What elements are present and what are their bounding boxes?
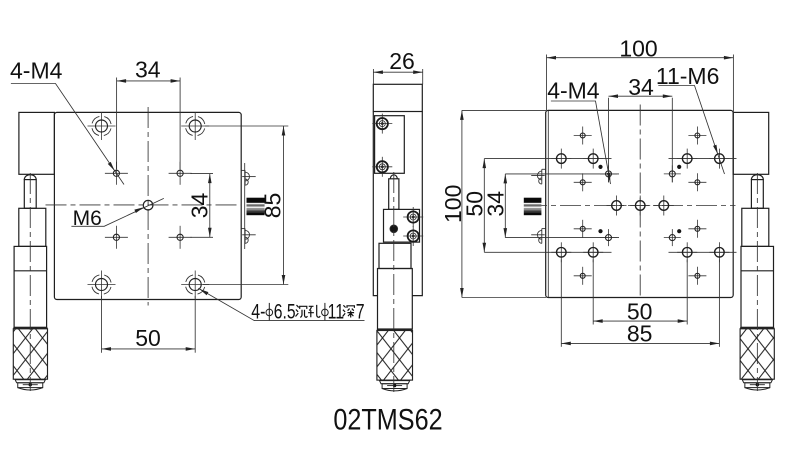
svg-text:34: 34 — [135, 57, 161, 83]
right plate horizontal centerline — [526, 205, 736, 207]
svg-text:34: 34 — [628, 74, 654, 100]
M4 hole top-left — [105, 162, 128, 185]
M6 holes upper row — [551, 149, 571, 169]
svg-text:M6: M6 — [73, 207, 102, 230]
side micrometer cap — [380, 381, 410, 391]
block center pin — [390, 225, 398, 233]
svg-text:4-M4: 4-M4 — [547, 78, 600, 104]
side micrometer centerline — [393, 172, 395, 392]
dimension 34 inner: extension lines — [191, 173, 214, 175]
bottom dim column extension lines — [560, 260, 562, 347]
side view top plate — [373, 84, 422, 111]
dimension 34 top: dim line — [117, 80, 181, 82]
dimension 100 top: dim line — [547, 57, 734, 59]
svg-text:34: 34 — [482, 191, 508, 217]
counterbore hole top-left — [88, 112, 116, 140]
right plate vertical centerline — [639, 105, 641, 299]
micrometer sleeve — [19, 208, 46, 246]
M6 holes center row — [607, 196, 627, 216]
counterbore hole top-right — [181, 112, 209, 140]
right clamp block — [733, 112, 769, 174]
micrometer cap — [15, 380, 45, 390]
right view stage plate — [546, 110, 734, 297]
right micrometer knurled thimble — [740, 328, 774, 379]
dimension 34 top right: dim line — [609, 95, 673, 97]
block screw upper — [403, 207, 423, 227]
barrel divider line — [14, 270, 47, 272]
M4 hole bottom-left — [105, 226, 128, 249]
clamp screw lower — [372, 157, 392, 177]
svg-text:4-M4: 4-M4 — [10, 57, 63, 83]
dimension 34 top: extension lines — [116, 78, 118, 170]
svg-text:34: 34 — [186, 193, 212, 219]
dimension 26: dim line — [373, 71, 422, 73]
small M4 holes left column — [574, 127, 592, 145]
side tab screw upper — [241, 170, 255, 185]
dimension 85 bottom right: dim line — [561, 342, 719, 344]
micrometer barrel — [14, 246, 47, 327]
top 34 column extension lines — [608, 98, 610, 183]
dimension 85 right: dim line — [283, 126, 285, 285]
svg-text:11: 11 — [328, 300, 345, 324]
dimension 34 left: dim line — [504, 174, 506, 238]
small M4 holes right column — [688, 127, 706, 145]
100 left extension lines — [462, 109, 546, 111]
dimension 26: extension lines — [372, 69, 374, 84]
side micrometer block — [384, 209, 420, 242]
dimension 50 left: dim line — [483, 159, 485, 253]
micrometer ball and spindle — [24, 175, 36, 209]
micrometer clamp block — [19, 112, 55, 174]
label 4-M4 right leader — [551, 101, 611, 184]
M4 hole top-right — [169, 162, 192, 185]
dimension 50 bottom: dim line — [102, 348, 196, 350]
left view stage plate — [54, 112, 241, 299]
dimension 50 bottom: extension lines — [101, 296, 103, 353]
dimension 50 bottom right: dim line — [593, 320, 687, 322]
M4 hole bottom-right — [169, 226, 192, 249]
svg-text:50: 50 — [135, 325, 161, 351]
side clamp plate — [375, 116, 405, 174]
side view body outline — [373, 112, 422, 296]
side tab screw lower — [241, 229, 255, 244]
M4 row extension lines — [505, 173, 619, 175]
dimension 34 inner: dim line — [209, 174, 211, 238]
center hole M6 — [143, 200, 153, 210]
svg-text:02TMS62: 02TMS62 — [333, 402, 442, 436]
label 4-M4 leader — [11, 84, 124, 185]
micrometer knurled thimble — [13, 328, 47, 379]
100 top extension lines — [546, 55, 548, 111]
right micrometer barrel — [741, 246, 774, 327]
clamp screw upper — [372, 114, 392, 134]
side micrometer ball and spindle — [389, 175, 399, 210]
right micrometer sleeve — [742, 208, 769, 246]
plate horizontal centerline — [46, 204, 242, 206]
svg-text:6.5: 6.5 — [274, 299, 296, 323]
dimension 85 right: extension lines — [205, 125, 288, 127]
side micrometer barrel 2 — [378, 269, 413, 330]
right edge secondary line — [244, 163, 246, 249]
plate vertical centerline — [147, 107, 149, 306]
micrometer centerline — [29, 173, 31, 391]
right barrel divider line — [741, 270, 774, 272]
lead screw tip (right edge) — [247, 198, 265, 216]
right view lead screw tip — [524, 198, 542, 216]
label M6 leader — [71, 198, 163, 226]
svg-text:26: 26 — [389, 48, 415, 74]
svg-text:100: 100 — [619, 36, 657, 62]
dimension 100 left: dim line — [461, 110, 463, 297]
label 11-M6 leader — [658, 86, 724, 175]
counterbore hole bottom-right — [181, 271, 209, 299]
svg-text:85: 85 — [627, 321, 653, 347]
dowel pins (filled) — [598, 165, 602, 169]
svg-text:85: 85 — [260, 193, 286, 219]
right micrometer ball and spindle — [751, 175, 763, 209]
right micrometer cap — [742, 380, 772, 390]
left side tab screw upper — [531, 169, 545, 184]
4-M4 through holes — [600, 165, 617, 182]
side micrometer barrel 1 — [379, 243, 411, 268]
right micrometer centerline — [756, 173, 758, 391]
svg-text:4-: 4- — [251, 300, 265, 324]
block screw lower — [403, 226, 423, 246]
label counterbore spec 4-phi6.5 counterbore phi11 depth7 — [198, 287, 364, 324]
svg-text:7: 7 — [356, 300, 365, 324]
side micrometer knurled thimble — [377, 330, 413, 380]
plate left edge secondary line — [547, 111, 549, 297]
counterbore hole bottom-left — [88, 271, 116, 299]
left side tab screw lower — [531, 229, 545, 244]
M6 row construction lines — [484, 158, 611, 160]
M6 holes lower row — [551, 242, 571, 262]
